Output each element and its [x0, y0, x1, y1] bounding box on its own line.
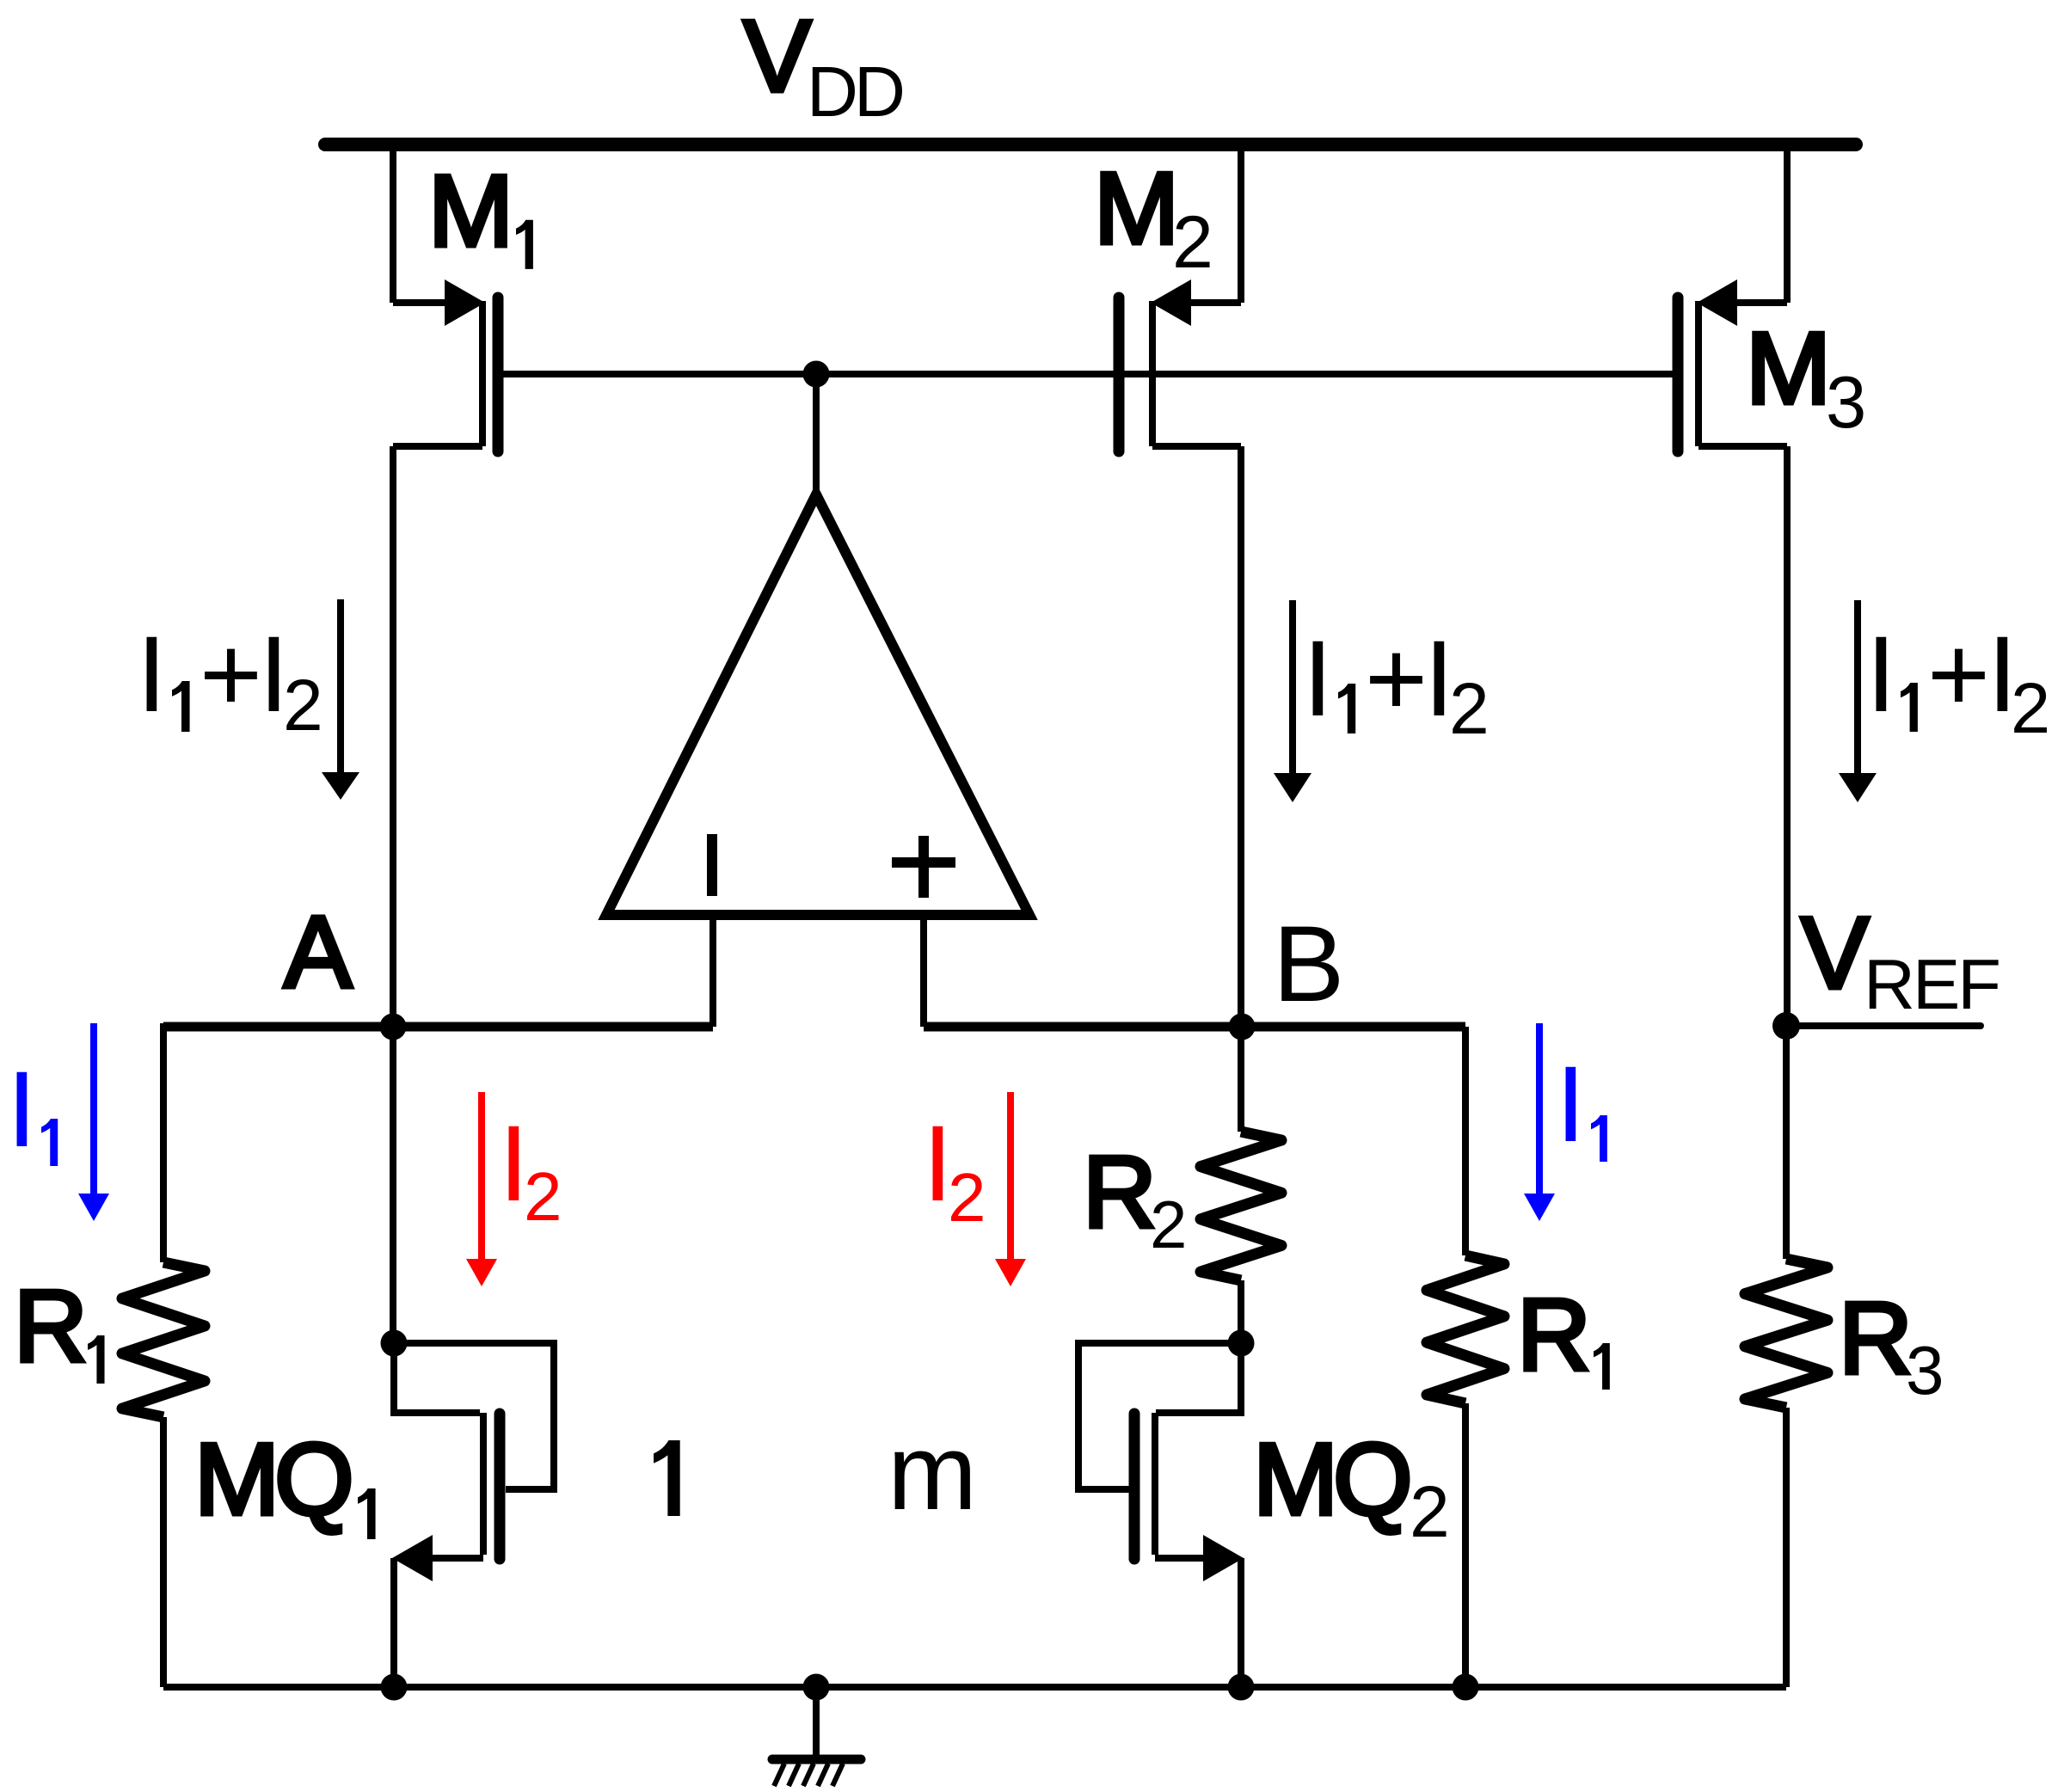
wire VREF to R3 [1783, 1026, 1790, 1259]
svg-text:I: I [1866, 615, 1896, 734]
svg-text:+: + [1927, 615, 1990, 734]
resistor R1 right [1427, 1255, 1504, 1403]
current arrow I1+I2 right (black) [1839, 600, 1877, 802]
M3 label [1746, 311, 1866, 444]
svg-text:I: I [1303, 619, 1333, 739]
wire node B to R2 [1238, 1027, 1244, 1132]
wire R1 left to ground rail [160, 1417, 167, 1687]
current arrow I1 left (blue) [78, 1023, 109, 1221]
svg-text:A: A [284, 895, 353, 1010]
transistor M3 [1678, 141, 1787, 451]
current arrow I1 right (blue) [1524, 1023, 1555, 1221]
transistor M1 [393, 141, 498, 451]
wire VREF stub [1786, 1022, 1981, 1029]
VDD label [743, 0, 902, 132]
wire M1 drain to node A and MQ1 [390, 446, 396, 1343]
wire node B to R1 right [1462, 1027, 1469, 1255]
junction MQ1 source [381, 1674, 408, 1701]
ratio label 1 [654, 1440, 680, 1516]
svg-text:+: + [1365, 619, 1428, 739]
R2 label [1083, 1135, 1187, 1262]
svg-text:I: I [7, 1050, 37, 1169]
wire M3 drain to VREF node [1784, 446, 1791, 1027]
transistor M2 [1119, 141, 1241, 451]
gate node junction [803, 361, 830, 388]
current arrow I2 left (red) [466, 1092, 497, 1286]
wire node A row [163, 1022, 713, 1032]
wire M2 drain to node B [1238, 446, 1244, 1027]
svg-text:+: + [200, 615, 262, 734]
svg-text:M: M [428, 154, 513, 268]
I1 right label (blue) [1556, 1045, 1607, 1164]
I2 left label (red) [499, 1104, 562, 1235]
svg-text:I: I [1556, 1045, 1586, 1164]
svg-text:2: 2 [1449, 668, 1490, 749]
svg-text:2: 2 [2011, 668, 2050, 748]
MQ2 label [1253, 1422, 1450, 1552]
svg-text:2: 2 [948, 1159, 986, 1236]
gate bus wire [503, 371, 1673, 377]
I2 right label (red) [923, 1104, 986, 1236]
resistor R1 left [122, 1262, 205, 1417]
svg-text:M: M [1746, 311, 1831, 426]
svg-text:2: 2 [1172, 201, 1213, 284]
wire op-amp non-inverting input leg [920, 915, 927, 1027]
MQ1 drain node [381, 1330, 408, 1357]
wire R2 to MQ2 [1238, 1280, 1244, 1343]
svg-text:B: B [1273, 905, 1344, 1024]
svg-text:2: 2 [1150, 1187, 1187, 1262]
VREF node [1772, 1012, 1800, 1040]
resistor R2 [1201, 1132, 1281, 1280]
svg-text:MQ: MQ [194, 1422, 349, 1537]
wire op-amp inverting input leg [709, 915, 716, 1027]
ground [772, 1687, 861, 1786]
current arrow I1+I2 middle (black) [1274, 600, 1311, 802]
transistor MQ1 [392, 1343, 554, 1687]
node A [380, 1014, 407, 1040]
VREF label [1801, 896, 1999, 1024]
svg-text:R: R [14, 1269, 88, 1384]
R1 left label [14, 1269, 105, 1384]
svg-text:m: m [888, 1413, 977, 1532]
transistor MQ2 [1078, 1343, 1244, 1687]
svg-text:R: R [1517, 1278, 1591, 1392]
svg-text:REF: REF [1864, 944, 1999, 1024]
R1 right label [1517, 1278, 1610, 1392]
M1 label [428, 154, 533, 269]
svg-text:DD: DD [807, 52, 902, 132]
svg-text:3: 3 [1906, 1332, 1944, 1408]
svg-text:2: 2 [1410, 1471, 1450, 1552]
svg-text:V: V [743, 0, 811, 114]
current arrow I2 right (red) [995, 1092, 1026, 1286]
op-amp U1 [606, 494, 1029, 915]
MQ2 drain node [1228, 1330, 1255, 1357]
svg-text:MQ: MQ [1253, 1422, 1408, 1537]
resistor R3 [1745, 1259, 1827, 1408]
wire op-amp output [813, 374, 820, 499]
I1+I2 middle label [1303, 619, 1490, 749]
wire node B row [924, 1022, 1465, 1032]
MQ1 label [194, 1422, 376, 1539]
ground rail [163, 1684, 1786, 1691]
junction MQ2 source [1228, 1674, 1255, 1701]
svg-text:I: I [137, 615, 167, 734]
svg-text:2: 2 [283, 665, 323, 746]
M2 label [1094, 151, 1213, 284]
wire left branch down [160, 1023, 167, 1262]
R3 label [1839, 1281, 1944, 1408]
junction ground stub [803, 1674, 830, 1701]
svg-text:3: 3 [1826, 362, 1866, 444]
junction R1 right bottom [1453, 1674, 1479, 1701]
svg-text:R: R [1839, 1281, 1913, 1396]
I1+I2 right label [1866, 615, 2050, 748]
VDD rail [325, 138, 1856, 151]
node B [1229, 1014, 1256, 1040]
I1+I2 left label [137, 615, 323, 746]
svg-text:2: 2 [524, 1158, 562, 1235]
wire R3 to ground rail [1783, 1408, 1790, 1687]
svg-text:V: V [1801, 896, 1869, 1010]
I1 left label (blue) [7, 1050, 58, 1169]
wire R1 right to ground rail [1462, 1403, 1469, 1687]
svg-text:R: R [1083, 1135, 1157, 1249]
svg-text:M: M [1094, 151, 1179, 266]
current arrow I1+I2 left (black) [322, 599, 359, 800]
